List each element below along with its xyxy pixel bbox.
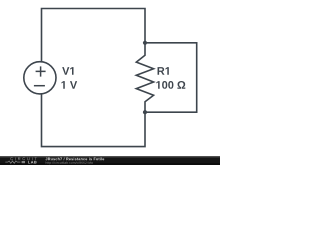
V1 plus sign [36, 66, 46, 76]
label V1 [62, 67, 73, 75]
CircuitLab logo zigzag resistor stroke [5, 161, 20, 163]
wire parallel short across R1 (right loop) [145, 43, 197, 112]
footer bar [0, 156, 220, 165]
CircuitLab logo wordmark CIRCUIT [10, 157, 36, 160]
footer title text [46, 158, 105, 161]
node A junction dot [143, 41, 147, 45]
node B junction dot [143, 110, 147, 114]
CircuitLab logo wordmark LAB [28, 161, 36, 164]
voltage source V1 circle [24, 62, 56, 94]
resistor R1 zigzag [136, 43, 153, 112]
footer url text [46, 161, 93, 164]
label R1 [158, 67, 169, 75]
CircuitLab logo capacitor block [22, 161, 25, 163]
label 100 ohms [156, 81, 185, 89]
wire from V1 positive terminal up, across top, down to node A [42, 9, 146, 62]
wire from node B down, across bottom, up to V1 negative terminal [42, 94, 146, 146]
V1 minus sign [34, 85, 45, 87]
label 1 V [61, 81, 77, 89]
